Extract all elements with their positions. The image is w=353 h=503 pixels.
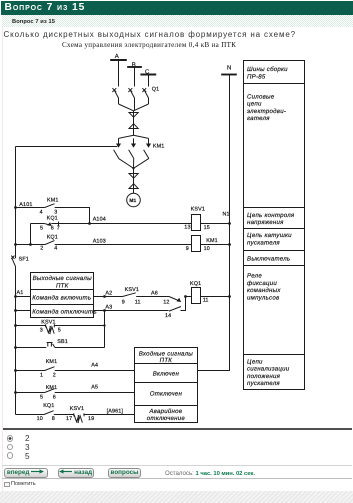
svg-text:19: 19 (88, 416, 94, 422)
svg-text:KQ1: KQ1 (43, 403, 54, 409)
svg-text:Включен: Включен (153, 370, 180, 377)
svg-text:KSV1: KSV1 (41, 319, 55, 325)
svg-text:KSV1: KSV1 (70, 406, 84, 412)
svg-text:A4: A4 (91, 363, 98, 369)
svg-text:9: 9 (122, 299, 125, 305)
svg-text:KM1: KM1 (153, 144, 165, 150)
svg-text:Выключатель: Выключатель (247, 255, 290, 262)
svg-text:10: 10 (37, 416, 43, 422)
svg-text:KSV1: KSV1 (191, 207, 205, 213)
svg-text:3: 3 (40, 328, 43, 334)
svg-text:11: 11 (203, 297, 209, 303)
svg-text:A: A (115, 53, 119, 60)
svg-text:6: 6 (53, 395, 56, 401)
svg-text:сигнализации: сигнализации (247, 366, 290, 373)
svg-text:KQ1: KQ1 (47, 234, 58, 240)
svg-text:7: 7 (57, 226, 60, 232)
svg-text:A104: A104 (93, 217, 106, 223)
svg-text:цепи: цепи (247, 101, 262, 108)
svg-text:командных: командных (247, 287, 281, 294)
svg-text:Выходные сигналы: Выходные сигналы (33, 275, 93, 282)
svg-text:KM1: KM1 (47, 197, 59, 203)
svg-text:SF1: SF1 (19, 257, 29, 263)
svg-text:KM1: KM1 (206, 238, 218, 244)
svg-text:KM1: KM1 (46, 359, 58, 365)
svg-text:гателя: гателя (247, 115, 270, 122)
svg-text:9: 9 (186, 246, 189, 252)
svg-text:2: 2 (40, 246, 43, 252)
svg-text:A3: A3 (105, 304, 112, 310)
svg-text:A103: A103 (93, 239, 106, 245)
svg-text:Отключен: Отключен (150, 390, 183, 397)
svg-text:напряжения: напряжения (247, 219, 284, 226)
svg-text:N1: N1 (223, 211, 230, 217)
svg-text:17: 17 (66, 416, 72, 422)
svg-text:ПТК: ПТК (160, 357, 173, 364)
svg-text:Цепь катушки: Цепь катушки (247, 232, 292, 239)
svg-text:Реле: Реле (247, 273, 262, 280)
svg-text:11: 11 (135, 299, 141, 305)
svg-text:ПТК: ПТК (56, 282, 69, 289)
svg-text:A6: A6 (151, 291, 158, 297)
svg-text:M1: M1 (129, 198, 136, 204)
svg-text:KSV1: KSV1 (125, 287, 139, 293)
svg-text:ПР-85: ПР-85 (247, 73, 266, 80)
svg-text:пускателя: пускателя (247, 239, 280, 246)
svg-text:A1: A1 (17, 290, 24, 296)
svg-text:Цепи: Цепи (247, 358, 263, 365)
svg-text:4: 4 (54, 246, 57, 252)
svg-text:8: 8 (52, 416, 55, 422)
svg-text:Шины сборки: Шины сборки (247, 66, 288, 73)
svg-text:4: 4 (40, 210, 43, 216)
svg-text:фиксации: фиксации (247, 280, 277, 287)
svg-text:5: 5 (40, 226, 43, 232)
svg-text:Силовые: Силовые (247, 93, 275, 100)
svg-text:Цепь контроля: Цепь контроля (247, 212, 295, 219)
svg-text:2: 2 (53, 372, 56, 378)
svg-text:13: 13 (184, 225, 190, 231)
svg-text:14: 14 (165, 313, 171, 319)
svg-text:12: 12 (163, 299, 169, 305)
svg-text:10: 10 (204, 246, 210, 252)
svg-text:A5: A5 (91, 385, 98, 391)
svg-text:электродви-: электродви- (247, 108, 286, 115)
svg-text:A2: A2 (105, 291, 112, 297)
svg-text:Команда отключить: Команда отключить (32, 308, 97, 315)
svg-text:N: N (227, 65, 231, 72)
svg-text:KQ1: KQ1 (47, 216, 58, 222)
svg-text:KQ1: KQ1 (190, 281, 201, 287)
svg-text:импульсов: импульсов (247, 295, 279, 302)
svg-text:5: 5 (40, 395, 43, 401)
svg-text:5: 5 (58, 328, 61, 334)
svg-text:Q1: Q1 (152, 87, 160, 93)
svg-text:[A961]: [A961] (107, 409, 124, 415)
svg-text:1: 1 (40, 372, 43, 378)
svg-text:SB1: SB1 (57, 339, 68, 345)
svg-text:15: 15 (204, 225, 210, 231)
svg-text:Команда включить: Команда включить (32, 295, 91, 302)
svg-text:6: 6 (51, 226, 54, 232)
svg-text:пускателя: пускателя (247, 380, 280, 387)
svg-text:положения: положения (247, 373, 281, 380)
svg-text:отключение: отключение (147, 415, 186, 422)
